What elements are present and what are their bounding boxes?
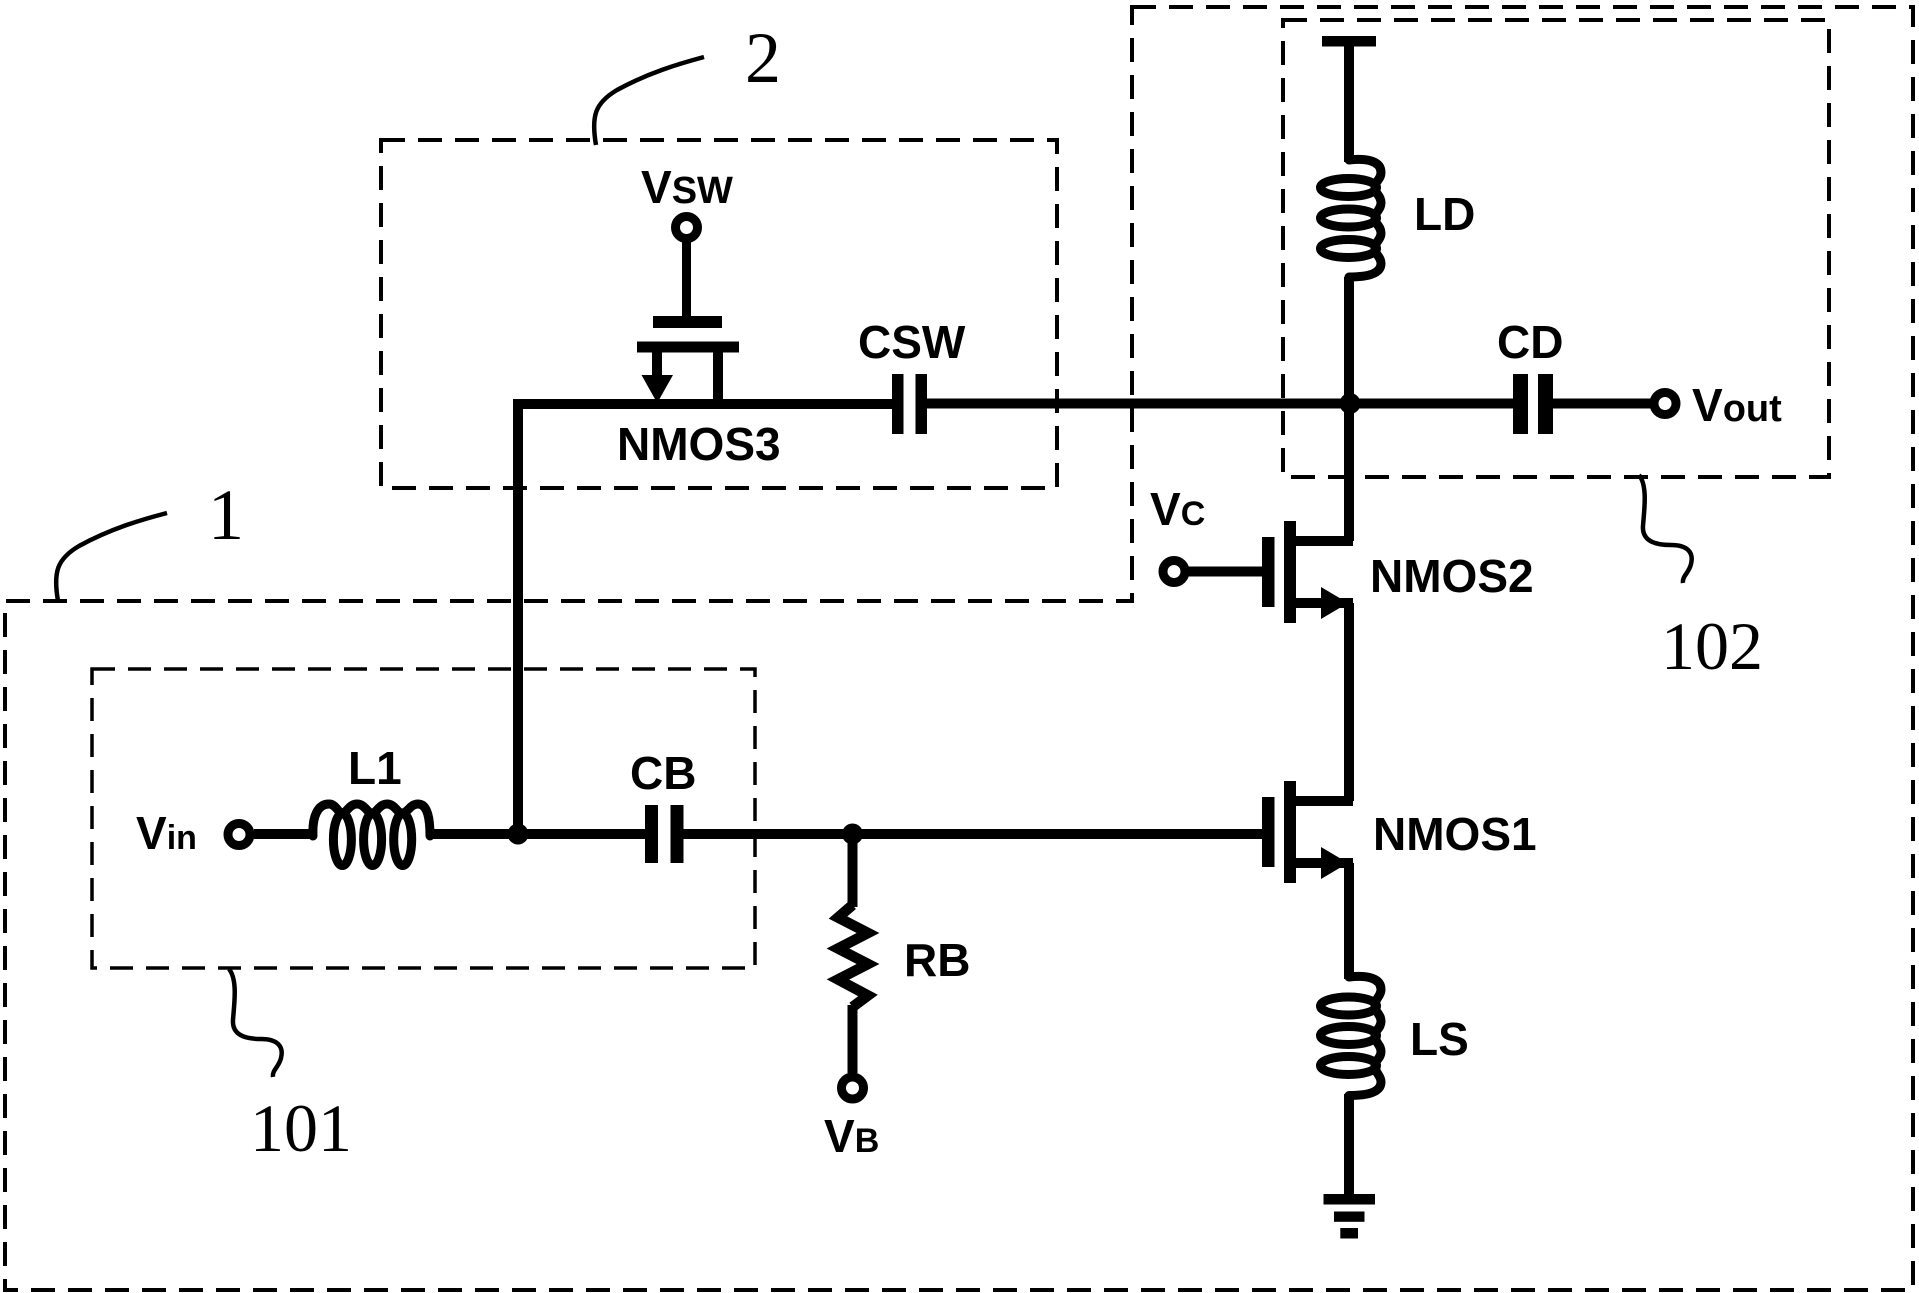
svg-text:CD: CD (1497, 316, 1563, 368)
dashed box 101 (input match block) (92, 669, 755, 968)
transistor NMOS3 (637, 316, 739, 403)
dashed box 102 (output block) (1283, 20, 1829, 477)
wire CB to NMOS1 gate (684, 829, 1263, 839)
capacitor CSW (892, 374, 904, 434)
transistor NMOS1 (1262, 781, 1348, 883)
wire NMOS1 source to LS (1344, 863, 1354, 979)
ground (1324, 1194, 1376, 1239)
wire Vc to NMOS2 gate (1185, 567, 1262, 577)
inductor LD (1321, 159, 1382, 277)
wire Vsw stem (682, 238, 691, 318)
node junction RB tap (842, 824, 863, 845)
wire CD to Vout (1553, 399, 1654, 409)
terminal VB (842, 1077, 864, 1099)
svg-text:L1: L1 (348, 742, 402, 794)
power VDD bar (1322, 36, 1376, 47)
wire LD to junction to NMOS2 drain (1344, 277, 1354, 541)
leader squiggle for 101 (229, 969, 282, 1077)
terminal Vout (1654, 393, 1676, 415)
node junction at x518 on input line (508, 824, 529, 845)
resistor RB (838, 905, 868, 1007)
terminal Vc (1163, 561, 1185, 583)
svg-text:LD: LD (1414, 188, 1475, 240)
node output junction (1340, 393, 1361, 414)
wire Vin to L1 (254, 829, 315, 839)
wire VDD stem (1344, 44, 1354, 162)
svg-text:LS: LS (1410, 1013, 1469, 1065)
svg-text:NMOS1: NMOS1 (1373, 808, 1537, 860)
svg-text:102: 102 (1661, 608, 1763, 684)
svg-text:CB: CB (630, 747, 696, 799)
terminal Vin (228, 824, 250, 846)
capacitor CB (645, 805, 658, 863)
wire L1 to CB (430, 829, 645, 839)
svg-text:CSW: CSW (858, 316, 966, 368)
wire NMOS2 source to NMOS1 drain (1344, 603, 1354, 801)
transistor NMOS2 (1262, 521, 1348, 623)
svg-text:RB: RB (904, 934, 970, 986)
inductor LS (1321, 976, 1382, 1095)
wire LS to ground (1344, 1094, 1354, 1199)
leader squiggle for 2 (594, 57, 704, 145)
svg-text:1: 1 (208, 475, 244, 555)
leader squiggle for 102 (1639, 475, 1692, 583)
svg-text:NMOS3: NMOS3 (617, 418, 781, 470)
terminal Vsw (676, 217, 698, 239)
inductor L1 (313, 804, 430, 866)
wire RB top (848, 834, 858, 907)
svg-text:2: 2 (745, 18, 781, 98)
svg-text:101: 101 (250, 1090, 352, 1166)
dashed box 2 (switch block) (381, 140, 1057, 488)
capacitor CD (1513, 374, 1528, 434)
wire CSW to CD (927, 399, 1513, 409)
wire RB bottom (848, 1005, 858, 1073)
svg-text:NMOS2: NMOS2 (1370, 550, 1534, 602)
leader squiggle for 1 (56, 513, 167, 601)
wire NMOS3 source drop (vertical x518) and top row left (518, 404, 892, 834)
